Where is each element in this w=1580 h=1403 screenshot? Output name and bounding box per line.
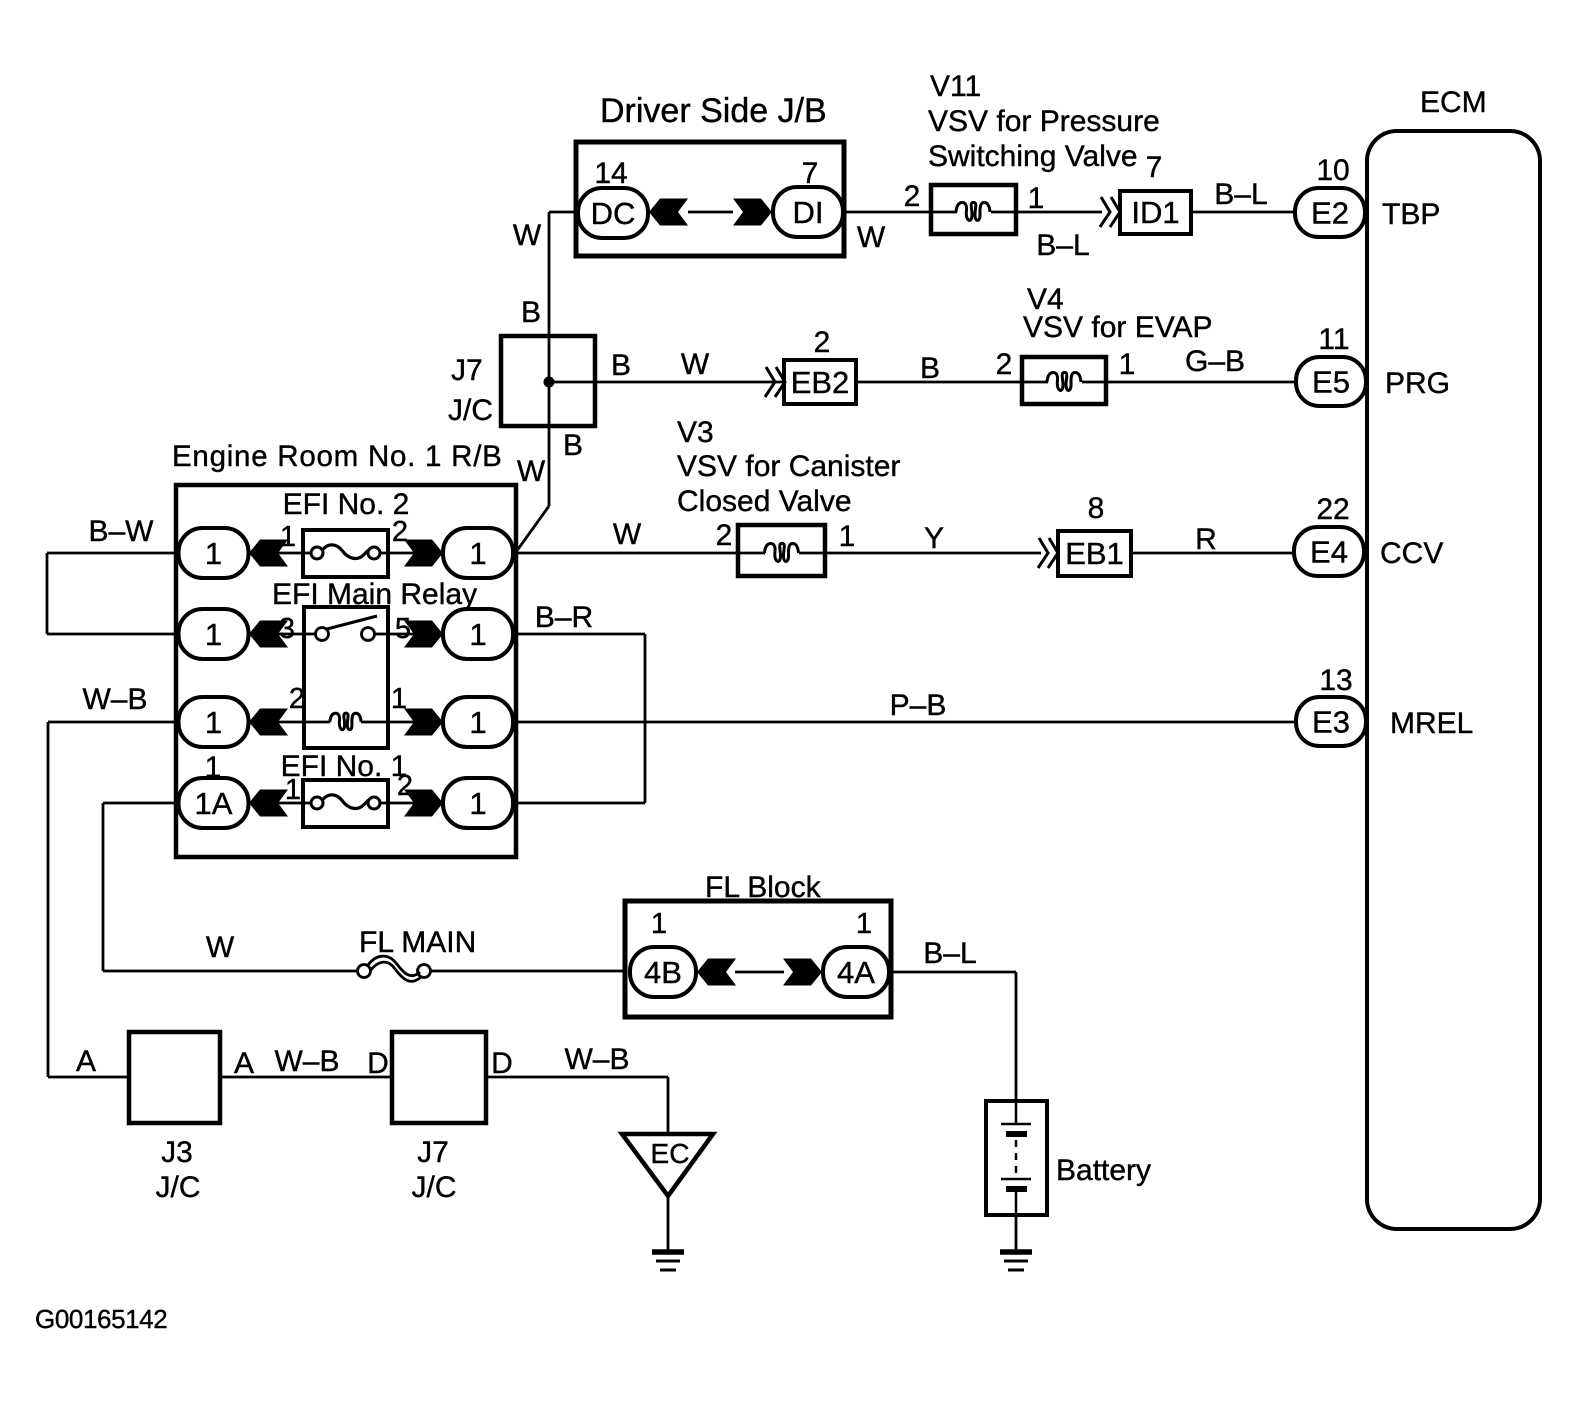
svg-text:J/C: J/C: [156, 1171, 201, 1204]
svg-text:11: 11: [1318, 323, 1349, 356]
svg-text:EB2: EB2: [791, 365, 850, 400]
svg-text:4A: 4A: [837, 955, 875, 990]
svg-text:2: 2: [814, 326, 831, 359]
svg-text:EB1: EB1: [1065, 536, 1124, 571]
svg-text:FL Block: FL Block: [705, 871, 822, 904]
svg-text:13: 13: [1319, 664, 1352, 697]
svg-text:W: W: [517, 455, 546, 488]
svg-text:A: A: [76, 1045, 96, 1078]
svg-text:1: 1: [205, 751, 222, 784]
svg-text:Switching Valve: Switching Valve: [928, 140, 1138, 173]
svg-text:EC: EC: [651, 1138, 690, 1169]
svg-text:7: 7: [1146, 151, 1163, 184]
svg-text:2: 2: [392, 516, 408, 548]
svg-text:1: 1: [651, 908, 667, 940]
svg-text:1: 1: [469, 617, 486, 652]
svg-text:Engine Room No. 1 R/B: Engine Room No. 1 R/B: [172, 440, 503, 473]
svg-text:V11: V11: [930, 70, 981, 103]
svg-text:B–W: B–W: [88, 515, 154, 548]
svg-text:VSV for Canister: VSV for Canister: [677, 450, 900, 483]
svg-text:7: 7: [802, 157, 819, 190]
svg-text:MREL: MREL: [1390, 707, 1473, 740]
svg-text:1: 1: [205, 705, 222, 740]
svg-text:W: W: [681, 348, 710, 381]
svg-text:2: 2: [716, 519, 733, 552]
svg-text:W–B: W–B: [82, 683, 147, 716]
svg-text:G–B: G–B: [1185, 345, 1245, 378]
svg-text:1A: 1A: [195, 786, 233, 821]
svg-text:J7: J7: [417, 1136, 449, 1169]
svg-text:J7: J7: [451, 354, 483, 387]
svg-text:A: A: [234, 1047, 254, 1080]
svg-text:VSV for EVAP: VSV for EVAP: [1023, 311, 1213, 344]
svg-text:2: 2: [904, 180, 921, 213]
svg-text:FL MAIN: FL MAIN: [359, 926, 476, 959]
svg-text:1: 1: [280, 521, 296, 553]
svg-text:3: 3: [279, 613, 295, 645]
svg-text:ECM: ECM: [1420, 86, 1487, 119]
svg-text:Y: Y: [924, 522, 944, 555]
svg-text:W: W: [857, 221, 886, 254]
svg-text:B–L: B–L: [923, 937, 976, 970]
svg-text:1: 1: [391, 683, 407, 715]
svg-text:D: D: [367, 1047, 389, 1080]
svg-text:Closed Valve: Closed Valve: [677, 485, 852, 518]
svg-text:22: 22: [1316, 493, 1349, 526]
svg-text:TBP: TBP: [1382, 198, 1440, 231]
svg-text:R: R: [1195, 523, 1217, 556]
svg-text:W–B: W–B: [564, 1043, 629, 1076]
svg-text:B: B: [611, 349, 631, 382]
svg-text:ID1: ID1: [1131, 195, 1179, 230]
svg-text:B–R: B–R: [535, 601, 593, 634]
svg-text:B–L: B–L: [1214, 178, 1267, 211]
svg-text:E5: E5: [1312, 365, 1350, 400]
svg-text:PRG: PRG: [1385, 367, 1450, 400]
svg-text:2: 2: [397, 770, 413, 802]
svg-text:B–L: B–L: [1036, 229, 1089, 262]
svg-text:VSV for Pressure: VSV for Pressure: [928, 105, 1160, 138]
svg-text:Driver Side J/B: Driver Side J/B: [600, 92, 827, 130]
svg-text:5: 5: [395, 613, 411, 645]
svg-text:DI: DI: [793, 195, 824, 230]
svg-text:W: W: [613, 518, 642, 551]
svg-text:CCV: CCV: [1380, 537, 1443, 570]
svg-text:1: 1: [285, 774, 301, 806]
svg-text:E3: E3: [1312, 705, 1350, 740]
svg-text:B: B: [521, 296, 541, 329]
svg-text:D: D: [491, 1047, 513, 1080]
svg-text:1: 1: [839, 520, 856, 553]
svg-text:B: B: [563, 429, 583, 462]
svg-text:1: 1: [205, 536, 222, 571]
svg-text:1: 1: [469, 705, 486, 740]
svg-text:DC: DC: [591, 196, 636, 231]
svg-text:J/C: J/C: [412, 1171, 457, 1204]
svg-text:1: 1: [205, 617, 222, 652]
svg-text:Battery: Battery: [1056, 1154, 1151, 1187]
svg-text:E4: E4: [1310, 535, 1348, 570]
svg-text:10: 10: [1316, 154, 1349, 187]
svg-text:B: B: [920, 352, 940, 385]
svg-text:1: 1: [1028, 182, 1045, 215]
svg-text:G00165142: G00165142: [35, 1304, 167, 1334]
svg-text:EFI No. 2: EFI No. 2: [283, 488, 410, 521]
svg-text:2: 2: [289, 683, 305, 715]
svg-text:8: 8: [1088, 492, 1105, 525]
svg-text:W: W: [206, 931, 235, 964]
svg-text:EFI Main Relay: EFI Main Relay: [272, 578, 477, 611]
svg-text:J3: J3: [161, 1136, 193, 1169]
svg-text:W: W: [513, 219, 542, 252]
svg-text:1: 1: [1119, 348, 1136, 381]
svg-text:E2: E2: [1311, 196, 1349, 231]
svg-text:2: 2: [996, 348, 1013, 381]
svg-text:J/C: J/C: [448, 394, 493, 427]
svg-text:14: 14: [594, 157, 627, 190]
svg-text:1: 1: [469, 786, 486, 821]
svg-text:V3: V3: [677, 416, 714, 449]
svg-text:W–B: W–B: [274, 1045, 339, 1078]
svg-text:1: 1: [469, 536, 486, 571]
svg-text:P–B: P–B: [890, 689, 947, 722]
svg-text:4B: 4B: [644, 955, 682, 990]
svg-text:1: 1: [856, 908, 872, 940]
